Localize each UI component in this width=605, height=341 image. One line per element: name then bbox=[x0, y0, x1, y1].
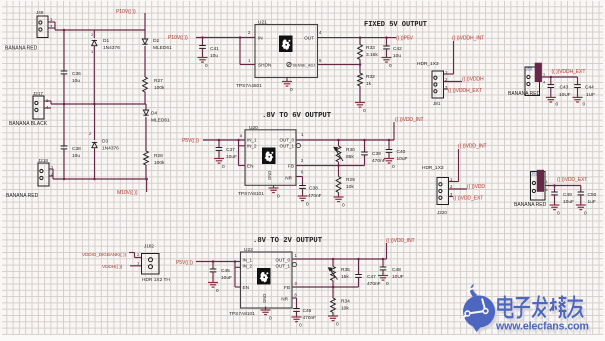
wire C36 stem bottom bbox=[63, 74, 65, 104]
svg-text:J220: J220 bbox=[437, 210, 447, 215]
svg-text:(( ))VDDH_INT: (( ))VDDH_INT bbox=[452, 36, 484, 42]
wire C48 stem bbox=[382, 259, 384, 267]
svg-text:BANANA RED: BANANA RED bbox=[514, 202, 547, 208]
svg-text:0: 0 bbox=[389, 63, 392, 69]
resistor R34 bbox=[331, 298, 336, 313]
connector J217 bbox=[33, 96, 44, 119]
svg-text:C42: C42 bbox=[393, 46, 402, 52]
wire J182 pin1 bbox=[130, 265, 142, 267]
svg-text:SHDN: SHDN bbox=[258, 63, 271, 68]
svg-text:C41: C41 bbox=[210, 46, 219, 52]
junction C41 bbox=[201, 36, 204, 39]
capacitor C39 bbox=[361, 152, 368, 155]
diode D3 stub bbox=[94, 104, 96, 140]
svg-text:(( ))VDDH_EXT: (( ))VDDH_EXT bbox=[552, 69, 586, 75]
svg-text:(( ))VDD: (( ))VDD bbox=[467, 184, 485, 190]
svg-text:BANANA RED: BANANA RED bbox=[6, 193, 39, 199]
svg-text:470nF: 470nF bbox=[367, 281, 381, 287]
svg-text:C48: C48 bbox=[392, 267, 401, 273]
svg-text:10UF: 10UF bbox=[392, 274, 404, 280]
svg-text:HDR_1X3: HDR_1X3 bbox=[417, 61, 439, 67]
svg-text:4: 4 bbox=[543, 81, 545, 85]
TI logo U21 bbox=[279, 36, 293, 53]
svg-text:J182: J182 bbox=[144, 244, 154, 249]
svg-text:SENSE_ADJ: SENSE_ADJ bbox=[293, 63, 316, 68]
svg-text:OUT_1: OUT_1 bbox=[275, 264, 290, 269]
wire C45 stem bbox=[212, 262, 214, 270]
svg-text:0: 0 bbox=[342, 203, 345, 209]
wire C40 stem bbox=[388, 140, 390, 150]
diode D3 bbox=[92, 143, 97, 148]
capacitor C43 bbox=[548, 85, 555, 88]
junction R35 bbox=[332, 258, 335, 261]
wire J51 out bbox=[545, 185, 581, 187]
capacitor C45 bbox=[210, 269, 217, 272]
junction D3 m10v bbox=[93, 178, 96, 181]
wire U21 ADJ bbox=[318, 64, 361, 66]
resistor R33 bbox=[358, 45, 363, 60]
connector J218 bbox=[38, 163, 49, 186]
svg-text:10u: 10u bbox=[210, 53, 218, 59]
svg-text:0: 0 bbox=[299, 323, 302, 329]
svg-text:C45: C45 bbox=[221, 268, 230, 274]
ground R32 bbox=[355, 103, 365, 108]
capacitor C40 bbox=[386, 150, 393, 153]
svg-text:MLED61: MLED61 bbox=[153, 45, 172, 51]
svg-text:0: 0 bbox=[557, 211, 560, 217]
svg-text:NR: NR bbox=[285, 176, 292, 181]
svg-text:C37: C37 bbox=[226, 147, 235, 153]
wire J50 out bbox=[540, 76, 578, 78]
svg-text:10u: 10u bbox=[72, 153, 80, 159]
wire R34 gnd bbox=[332, 313, 334, 316]
wire C41 stem bbox=[202, 38, 204, 46]
junction C48 bbox=[382, 258, 385, 261]
op-amp U21 box bbox=[255, 25, 318, 78]
svg-text:HDR_1X3: HDR_1X3 bbox=[422, 165, 444, 171]
svg-text:R33: R33 bbox=[366, 45, 375, 51]
wire R27 to gnd bus bbox=[144, 92, 146, 104]
junction C39 top bbox=[363, 139, 366, 142]
svg-text:C39: C39 bbox=[372, 151, 381, 157]
wire R29 gnd bbox=[338, 193, 340, 197]
TI logo U22 bbox=[257, 268, 271, 285]
svg-text:R35: R35 bbox=[341, 267, 350, 273]
svg-text:.8V TO 2V OUTPUT: .8V TO 2V OUTPUT bbox=[253, 237, 323, 245]
svg-text:EN: EN bbox=[247, 164, 254, 169]
capacitor C48 bbox=[380, 267, 387, 270]
junction D1 gnd bbox=[93, 103, 96, 106]
capacitor C42 bbox=[383, 46, 390, 49]
svg-text:15k: 15k bbox=[341, 274, 349, 280]
junction R30-FB bbox=[337, 164, 340, 167]
svg-text:100k: 100k bbox=[154, 85, 165, 91]
watermark elecfans logo and text bbox=[460, 284, 591, 336]
wire P5V to U20 bbox=[203, 139, 245, 141]
wire R35 stub bbox=[332, 259, 334, 267]
svg-text:R30: R30 bbox=[346, 147, 355, 153]
TI logo U20 bbox=[262, 148, 276, 165]
wire C47 top stem bbox=[358, 259, 360, 275]
svg-text:1uF: 1uF bbox=[588, 199, 596, 205]
op-amp U20 box bbox=[245, 130, 296, 186]
svg-text:IN_1: IN_1 bbox=[247, 138, 257, 143]
svg-text:1N4376: 1N4376 bbox=[102, 146, 119, 152]
junction J49 bus bbox=[63, 29, 66, 32]
U20 EN tie bbox=[238, 140, 240, 166]
potentiometer R30 bbox=[336, 146, 341, 162]
svg-text:GND: GND bbox=[262, 294, 267, 303]
wire P10V riser bbox=[144, 13, 146, 39]
capacitor C41 bbox=[199, 46, 206, 49]
svg-text:J218: J218 bbox=[38, 158, 48, 163]
wire P5V to U22 bbox=[196, 261, 241, 263]
junction SHDN tie bbox=[239, 36, 242, 39]
svg-text:OUT_0: OUT_0 bbox=[279, 138, 294, 143]
op-amp U22 box bbox=[241, 252, 293, 308]
diode D1 stub top bbox=[93, 30, 95, 38]
svg-text:C40: C40 bbox=[397, 149, 406, 155]
wire C45 gnd bbox=[212, 272, 214, 282]
wire VDD_INT riser (bottom) bbox=[386, 243, 388, 259]
wire C44 stem bbox=[577, 77, 579, 85]
junction R35-FB bbox=[332, 286, 335, 289]
ground C37 bbox=[214, 159, 224, 164]
junction C43 bbox=[550, 76, 553, 79]
svg-text:IN_2: IN_2 bbox=[247, 144, 257, 149]
svg-text:10u: 10u bbox=[393, 53, 401, 59]
svg-text:www.elecfans.com: www.elecfans.com bbox=[495, 321, 589, 333]
svg-text:J49: J49 bbox=[36, 10, 44, 15]
svg-text:D3: D3 bbox=[102, 139, 108, 145]
ground C49 bbox=[550, 205, 560, 210]
svg-text:470nF: 470nF bbox=[308, 193, 322, 199]
svg-text:J81: J81 bbox=[433, 101, 441, 106]
svg-text:OUT: OUT bbox=[304, 36, 314, 41]
wire J182 pin2 bbox=[129, 252, 135, 254]
wire J220 pin2 bbox=[449, 188, 468, 190]
svg-text:TPS7A8101: TPS7A8101 bbox=[229, 311, 255, 317]
svg-text:10k: 10k bbox=[346, 184, 354, 190]
capacitor C44 bbox=[574, 85, 581, 88]
wire C37 gnd bbox=[218, 150, 220, 158]
junction R33 bbox=[359, 36, 362, 39]
svg-text:OUT_1: OUT_1 bbox=[279, 144, 294, 149]
svg-text:R27: R27 bbox=[154, 78, 163, 84]
wire U21 OUT bbox=[318, 37, 397, 39]
svg-text:1: 1 bbox=[543, 73, 545, 77]
svg-text:0: 0 bbox=[277, 194, 280, 200]
wire C50 gnd bbox=[580, 195, 582, 205]
svg-text:0: 0 bbox=[269, 316, 272, 322]
ground C48 bbox=[378, 276, 388, 281]
svg-text:(( ))VDD_INT: (( ))VDD_INT bbox=[395, 117, 424, 123]
ground C42 bbox=[382, 58, 392, 63]
svg-text:1N4376: 1N4376 bbox=[103, 45, 120, 51]
capacitor C49 bbox=[551, 192, 558, 195]
junction C40 bbox=[388, 139, 391, 142]
wire D3 bottom bbox=[94, 148, 96, 179]
svg-text:470nF: 470nF bbox=[303, 315, 317, 321]
wire VDD_INT riser bbox=[393, 122, 395, 140]
svg-text:J217: J217 bbox=[33, 91, 43, 96]
junction C47 top bbox=[357, 258, 360, 261]
junction C42 bbox=[385, 36, 388, 39]
wire C42 to gnd bbox=[386, 49, 388, 57]
svg-text:0: 0 bbox=[584, 211, 587, 217]
wire C37 stem bbox=[218, 140, 220, 148]
potentiometer R35 bbox=[331, 267, 336, 281]
resistor R32 bbox=[358, 73, 363, 86]
wire C40 gnd bbox=[388, 152, 390, 158]
svg-text:0: 0 bbox=[386, 281, 389, 287]
wire C48 gnd bbox=[382, 270, 384, 275]
svg-text:1UF: 1UF bbox=[586, 92, 595, 98]
svg-text:10UF: 10UF bbox=[559, 92, 571, 98]
junction C36 gnd bbox=[63, 103, 66, 106]
svg-text:OUT_0: OUT_0 bbox=[275, 258, 290, 263]
wire R32 to gnd bbox=[359, 86, 361, 102]
svg-text:R34: R34 bbox=[341, 299, 350, 305]
wire C49 stem bbox=[554, 186, 556, 193]
svg-text:C50: C50 bbox=[588, 192, 597, 198]
capacitor C46 bbox=[293, 309, 300, 312]
wire C43 stem bbox=[550, 77, 552, 85]
wire R35 bottom bbox=[332, 281, 334, 288]
svg-text:U21: U21 bbox=[258, 20, 267, 26]
junction R28 m10v bbox=[145, 178, 148, 181]
svg-text:BANANA BLACK: BANANA BLACK bbox=[9, 121, 48, 127]
wire C41 to gnd bbox=[202, 48, 204, 57]
svg-text:0: 0 bbox=[336, 322, 339, 328]
wire C38 bottom bbox=[63, 149, 65, 179]
wire C46 gnd bbox=[296, 311, 298, 316]
junction R32 bbox=[359, 63, 362, 66]
svg-text:U20: U20 bbox=[249, 125, 258, 131]
svg-text:IN_1: IN_1 bbox=[243, 258, 253, 263]
wire D1 bottom bbox=[93, 46, 95, 104]
wire C36 stem top bbox=[63, 30, 65, 71]
capacitor C38 bbox=[61, 146, 68, 149]
svg-text:D4: D4 bbox=[151, 111, 157, 117]
ground C38b bbox=[298, 196, 308, 201]
svg-text:P5V(( )): P5V(( )) bbox=[176, 260, 193, 266]
wire P10V to U21 IN bbox=[196, 37, 255, 39]
capacitor C47 bbox=[355, 275, 362, 278]
svg-text:VDDIO_DIGBANK(( )): VDDIO_DIGBANK(( )) bbox=[82, 252, 126, 257]
wire VDD_INT drop (J220) bbox=[458, 149, 460, 182]
svg-text:100k: 100k bbox=[154, 160, 165, 166]
wire C49 gnd bbox=[554, 195, 556, 205]
connector J81 bbox=[432, 71, 444, 98]
svg-text:C46: C46 bbox=[303, 308, 312, 314]
wire R30 bottom bbox=[338, 162, 340, 166]
wire C39 bottom stem bbox=[364, 155, 366, 166]
svg-text:MLED61: MLED61 bbox=[151, 118, 170, 124]
wire R30 stub bbox=[338, 140, 340, 146]
svg-text:D1: D1 bbox=[103, 38, 109, 44]
svg-text:C38: C38 bbox=[72, 146, 81, 152]
svg-text:0: 0 bbox=[583, 102, 586, 108]
wire R34 stub bbox=[332, 287, 334, 298]
svg-text:FB: FB bbox=[288, 164, 294, 169]
diode D2 bbox=[142, 39, 147, 44]
svg-text:(( ))VDD_INT: (( ))VDD_INT bbox=[386, 238, 415, 244]
svg-text:0: 0 bbox=[556, 102, 559, 108]
svg-text:R29: R29 bbox=[346, 177, 355, 183]
svg-text:(( ))VDDH: (( ))VDDH bbox=[462, 77, 484, 83]
svg-text:P5V(( )): P5V(( )) bbox=[182, 138, 199, 144]
wire R33 top stub bbox=[359, 38, 361, 45]
wire C47 bottom stem bbox=[358, 277, 360, 287]
wire U20 FB bbox=[296, 165, 365, 167]
ground C44 bbox=[573, 97, 583, 102]
svg-text:NR: NR bbox=[281, 297, 288, 302]
svg-text:J50: J50 bbox=[526, 67, 533, 72]
ground R34 bbox=[328, 316, 338, 321]
wire J81 pin2 bbox=[444, 81, 463, 83]
junction C38 m10v bbox=[63, 178, 66, 181]
svg-text:FB: FB bbox=[284, 285, 290, 290]
svg-text:10uF: 10uF bbox=[221, 275, 232, 281]
svg-text:0: 0 bbox=[205, 63, 208, 69]
resistor R29 bbox=[336, 177, 341, 193]
wire C38 stem top bbox=[63, 104, 65, 146]
svg-text:3.16k: 3.16k bbox=[366, 52, 378, 58]
connector J49 bbox=[37, 16, 48, 38]
svg-text:BANANA RED: BANANA RED bbox=[508, 91, 541, 97]
wire J220 pin3 stub bbox=[449, 196, 454, 198]
connector J182 bbox=[142, 254, 160, 275]
ground R29 bbox=[334, 197, 344, 202]
svg-text:GND: GND bbox=[267, 171, 272, 180]
svg-text:U22: U22 bbox=[244, 247, 253, 253]
wire D2 to R27 bbox=[144, 46, 146, 77]
svg-text:(( ))P5V: (( ))P5V bbox=[396, 36, 414, 42]
svg-text:(( ))VDD_INT: (( ))VDD_INT bbox=[458, 144, 487, 150]
resistor R27 bbox=[143, 77, 148, 92]
capacitor C38b bbox=[299, 186, 306, 189]
svg-text:0: 0 bbox=[290, 87, 293, 93]
ground C46 bbox=[292, 317, 302, 322]
U21 pin text SENSE_ADJ bbox=[287, 62, 291, 66]
ground C50 bbox=[576, 205, 586, 210]
svg-text:10uF: 10uF bbox=[397, 156, 408, 162]
wire U20 OUT bbox=[296, 139, 394, 141]
wire J81 pin3 stub bbox=[444, 88, 449, 90]
svg-text:HDR 1X2 TH: HDR 1X2 TH bbox=[142, 277, 170, 283]
svg-text:VDDH(( )): VDDH(( )) bbox=[102, 264, 123, 270]
svg-text:10k: 10k bbox=[341, 306, 349, 312]
diode D4 bbox=[143, 110, 148, 115]
wire J218 to M10V bus bbox=[49, 168, 53, 170]
svg-text:C36: C36 bbox=[72, 71, 81, 77]
wire R28 bottom bbox=[145, 165, 147, 179]
svg-text:85k: 85k bbox=[346, 154, 354, 160]
svg-text:IN: IN bbox=[258, 36, 263, 41]
svg-text:0: 0 bbox=[392, 164, 395, 170]
wire R29 stub bbox=[338, 166, 340, 177]
wire U22 FB bbox=[292, 286, 359, 288]
junction C37 bbox=[218, 139, 221, 142]
junction C45 bbox=[212, 260, 215, 263]
diode D1 bbox=[92, 41, 97, 46]
wire C44 to gnd bbox=[577, 88, 579, 98]
wire M10V drop bbox=[146, 179, 148, 192]
U22 EN tie bbox=[234, 262, 236, 288]
svg-text:10uF: 10uF bbox=[563, 199, 574, 205]
capacitor C50 bbox=[578, 192, 585, 195]
ground C41 bbox=[198, 58, 208, 63]
wire C42 stem bbox=[386, 38, 388, 46]
junction C49 bbox=[553, 184, 556, 187]
svg-text:M10V(( )): M10V(( )) bbox=[117, 190, 138, 196]
svg-text:(( ))VDDH_EXT: (( ))VDDH_EXT bbox=[448, 88, 482, 94]
ground U21 bbox=[286, 78, 288, 82]
svg-text:0: 0 bbox=[306, 202, 309, 208]
svg-text:P10V(( )): P10V(( )) bbox=[168, 35, 188, 41]
svg-text:IN_2: IN_2 bbox=[243, 264, 253, 269]
ground U20 bbox=[273, 185, 275, 187]
ground C45 bbox=[208, 283, 218, 288]
wire VDDH_INT drop bbox=[453, 41, 455, 74]
svg-text:EN: EN bbox=[243, 285, 250, 290]
wire U20 NR bbox=[296, 176, 303, 178]
svg-text:10u: 10u bbox=[72, 78, 80, 84]
svg-text:C43: C43 bbox=[560, 85, 569, 91]
svg-text:FIXED 5V OUTPUT: FIXED 5V OUTPUT bbox=[364, 21, 427, 29]
ground C40 bbox=[384, 159, 394, 164]
svg-text:P10V(( )): P10V(( )) bbox=[116, 9, 136, 15]
svg-text:(( ))VDD_EXT: (( ))VDD_EXT bbox=[557, 177, 587, 183]
wire J49 to P10V bus bbox=[48, 21, 55, 23]
svg-text:1: 1 bbox=[546, 180, 548, 184]
svg-text:4: 4 bbox=[546, 188, 548, 192]
svg-text:TPS7A8101: TPS7A8101 bbox=[238, 191, 264, 197]
svg-text:(( ))VDD_EXT: (( ))VDD_EXT bbox=[453, 196, 483, 202]
connector J50 bbox=[525, 67, 540, 96]
ground C43 bbox=[546, 97, 556, 102]
wire C50 stem bbox=[580, 186, 582, 193]
svg-text:R32: R32 bbox=[366, 74, 375, 80]
svg-text:C49: C49 bbox=[563, 192, 572, 198]
svg-text:10uF: 10uF bbox=[226, 154, 237, 160]
capacitor C37 bbox=[216, 148, 223, 151]
wire U22 OUT bbox=[292, 258, 387, 260]
svg-text:BANANA RED: BANANA RED bbox=[5, 46, 38, 52]
ground U22 bbox=[265, 307, 267, 310]
capacitor C36 bbox=[61, 71, 68, 74]
svg-text:R28: R28 bbox=[154, 153, 163, 159]
svg-text:TPS7A4501: TPS7A4501 bbox=[236, 83, 262, 89]
connector J220 bbox=[437, 178, 449, 205]
wire SHDN tie bbox=[239, 38, 241, 65]
resistor R28 bbox=[144, 151, 149, 165]
wire C39 top stem bbox=[364, 140, 366, 152]
svg-text:0: 0 bbox=[216, 288, 219, 294]
svg-text:C38: C38 bbox=[309, 186, 318, 192]
wire C38b gnd bbox=[302, 188, 304, 195]
wire R32 top stub bbox=[359, 65, 361, 73]
diode D4 stub bbox=[145, 104, 147, 110]
svg-text:C47: C47 bbox=[367, 274, 376, 280]
svg-text:1k: 1k bbox=[366, 81, 372, 87]
svg-text:C44: C44 bbox=[585, 85, 594, 91]
svg-text:D2: D2 bbox=[153, 38, 159, 44]
wire D4 to R28 bbox=[145, 117, 147, 151]
banana fill J50 bbox=[535, 63, 541, 81]
wire R33 bottom bbox=[359, 60, 361, 65]
